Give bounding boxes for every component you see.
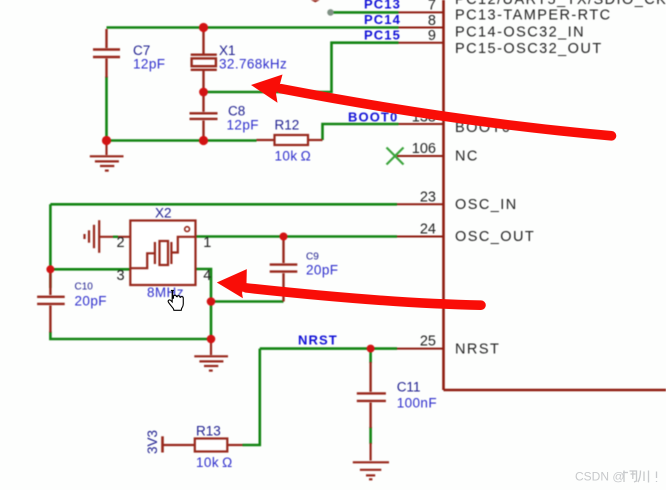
- capacitor C10: [37, 271, 65, 333]
- svg-text:PC15-OSC32_OUT: PC15-OSC32_OUT: [455, 41, 603, 57]
- gray endpoint dot PC13: [327, 9, 334, 16]
- X2 box: [130, 221, 195, 286]
- junction dot NRST C11: [367, 345, 375, 353]
- svg-text:2: 2: [117, 235, 125, 251]
- svg-text:24: 24: [420, 222, 436, 238]
- svg-text:3: 3: [117, 268, 125, 284]
- wire bottom X1 net: [107, 139, 257, 142]
- svg-text:PC13-TAMPER-RTC: PC13-TAMPER-RTC: [455, 8, 612, 24]
- pin 25 stub: [397, 348, 444, 350]
- junction dot C8 bottom: [199, 136, 208, 145]
- resistor R13: [163, 439, 242, 452]
- ground below C7: [90, 141, 124, 171]
- svg-text:OSC_IN: OSC_IN: [455, 197, 518, 213]
- capacitor C7: [93, 29, 120, 78]
- wire PC13 stub from gray endpoint: [332, 11, 399, 14]
- wire X1 bottom node to PC15 pin 9: [204, 43, 399, 92]
- capacitor C9: [270, 237, 298, 302]
- svg-text:PC13: PC13: [364, 0, 401, 12]
- pin 24 stub: [397, 236, 444, 238]
- svg-text:PC15: PC15: [364, 27, 401, 42]
- svg-text:NC: NC: [455, 149, 479, 165]
- svg-text:C8: C8: [228, 104, 245, 119]
- IC U1 bottom edge: [444, 389, 666, 392]
- wire C9 bottom branch: [211, 300, 284, 303]
- annotation arrow 1 (to X1): [251, 75, 612, 136]
- pin 138 stub: [399, 123, 444, 125]
- wire OSC_OUT net pin1 X2 to pin 24: [196, 235, 398, 238]
- svg-text:1: 1: [203, 235, 211, 251]
- svg-text:20pF: 20pF: [306, 263, 338, 278]
- wire PC14 net top (C7 to pin 8): [107, 26, 399, 29]
- svg-text:8: 8: [428, 13, 436, 29]
- wire stub pin2 green dash: [85, 220, 131, 253]
- svg-text:20pF: 20pF: [75, 294, 107, 309]
- svg-text:CSDN @: CSDN @: [575, 470, 625, 484]
- pin 23 stub: [397, 203, 444, 205]
- junction dot X1 bottom: [199, 88, 208, 97]
- svg-text:10k Ω: 10k Ω: [275, 149, 312, 164]
- wire C10 bottom: [50, 332, 211, 340]
- mouse cursor hand pointer: [168, 290, 183, 310]
- svg-text:7: 7: [428, 0, 436, 14]
- watermark CSDN: [575, 470, 657, 484]
- wire C7 lower to ground node: [105, 77, 108, 141]
- svg-text:9: 9: [428, 28, 436, 44]
- svg-text:C11: C11: [397, 380, 421, 395]
- svg-text:C9: C9: [306, 252, 319, 263]
- X2 pin1 indicator circle: [185, 227, 190, 232]
- svg-text:100nF: 100nF: [397, 396, 437, 411]
- svg-text:10k Ω: 10k Ω: [196, 455, 233, 470]
- svg-text:12pF: 12pF: [133, 57, 165, 72]
- wire C11 upper green segment: [369, 350, 372, 363]
- svg-text:OSC_OUT: OSC_OUT: [455, 229, 535, 245]
- svg-text:106: 106: [412, 141, 436, 157]
- crystal X1: [191, 28, 217, 93]
- junction dot C9 top: [280, 233, 288, 241]
- wire C11 lower green segment: [369, 427, 372, 444]
- wire left vertical to C10: [49, 204, 52, 288]
- pin 106 stub: [397, 155, 444, 157]
- ground below X2 net: [194, 339, 228, 371]
- pin 9 stub: [399, 42, 444, 44]
- svg-text:X2: X2: [155, 205, 172, 220]
- IC U1 left edge: [442, 0, 445, 390]
- junction dot X1 top: [199, 23, 208, 32]
- power rail 3V3 bar: [161, 436, 164, 452]
- pin 8 stub: [399, 27, 444, 29]
- pin 7 stub: [399, 11, 444, 13]
- no-connect X on pin 106: [387, 148, 404, 165]
- svg-text:PC14: PC14: [364, 12, 401, 27]
- wire NRST down to R13: [243, 349, 260, 445]
- svg-text:R13: R13: [196, 424, 221, 439]
- capacitor C11: [357, 362, 386, 428]
- svg-text:12pF: 12pF: [227, 118, 259, 133]
- resistor R12: [257, 135, 323, 145]
- svg-text:C10: C10: [75, 282, 94, 293]
- svg-text:4: 4: [203, 268, 211, 284]
- svg-text:3V3: 3V3: [145, 430, 160, 454]
- wire NRST net: [260, 347, 397, 350]
- svg-text:32.768kHz: 32.768kHz: [219, 57, 287, 72]
- wire pin2 green fleck: [113, 236, 118, 238]
- wire OSC_IN net (pin 23): [50, 203, 397, 206]
- wire X2 pin4 down: [196, 269, 212, 339]
- svg-text:25: 25: [420, 334, 436, 350]
- svg-text:NRST: NRST: [298, 333, 338, 348]
- diamond top marker: [311, 0, 320, 2]
- svg-text:PC14-OSC32_IN: PC14-OSC32_IN: [455, 24, 585, 40]
- junction dot ground node X2: [207, 335, 216, 344]
- svg-text:R12: R12: [275, 118, 300, 133]
- svg-text:NRST: NRST: [455, 342, 500, 358]
- junction dot pin4 node: [207, 297, 216, 306]
- wire BOOT0 net from R12: [323, 124, 399, 140]
- ground below C11: [353, 443, 389, 479]
- junction dot C7 ground node: [102, 136, 111, 145]
- annotation arrow 2 (to X2 pin4): [217, 269, 481, 305]
- junction dot pin3 node: [46, 265, 54, 273]
- wire X2 pin3 branch: [50, 268, 130, 271]
- svg-text:23: 23: [420, 189, 436, 205]
- crystal symbol inside X2: [131, 237, 196, 268]
- capacitor C8: [190, 92, 218, 141]
